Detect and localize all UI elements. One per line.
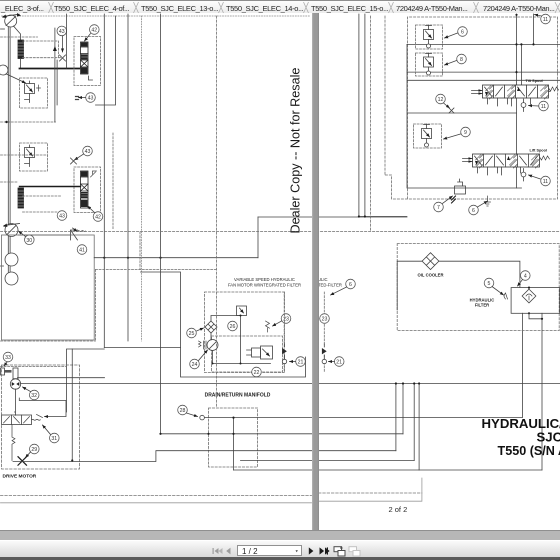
wire y348 left branch — [67, 349, 105, 412]
leader 43a — [62, 36, 64, 52]
dashed vertical x216 — [216, 16, 218, 408]
wire bus y417.6 — [204, 313, 522, 417]
pilot valve 7v — [452, 179, 466, 203]
leader 25 — [197, 328, 204, 331]
title text — [482, 416, 560, 458]
leader 28 — [187, 413, 198, 417]
frame bottom dashed — [1, 495, 312, 497]
balloon 30 — [25, 235, 35, 245]
svg-text:OIL COOLER: OIL COOLER — [418, 273, 444, 278]
relief valve RV1 — [20, 78, 48, 108]
bypass symbol — [504, 293, 508, 299]
frame bottom right page — [319, 492, 422, 494]
balloon edge cut — [0, 65, 8, 75]
LEFTPAGE — [0, 13, 407, 503]
wire bus y470 — [234, 469, 420, 471]
svg-text:DRIVE MOTOR: DRIVE MOTOR — [3, 474, 37, 480]
relief valve RV2 — [20, 143, 48, 171]
svg-text:23: 23 — [322, 317, 328, 323]
dashed pilot x139.5 — [1, 16, 217, 341]
filter column right dashed — [323, 292, 325, 344]
svg-text:DRAIN/RETURN MANIFOLD: DRAIN/RETURN MANIFOLD — [205, 393, 271, 399]
tab bar — [0, 0, 560, 13]
spring valve 23t — [266, 321, 270, 332]
wire oil cooler — [397, 261, 520, 310]
svg-text:26: 26 — [230, 324, 236, 330]
svg-text:FILTER: FILTER — [475, 303, 489, 308]
svg-text:21: 21 — [298, 360, 304, 366]
leader 6a — [445, 33, 458, 38]
wire y217 crosspage — [258, 216, 407, 218]
wire top corner — [19, 398, 66, 417]
leader 31 — [43, 425, 51, 435]
svg-text:12: 12 — [438, 97, 444, 103]
control valve dashed enclosure — [385, 17, 558, 199]
orifice X12 — [449, 108, 454, 113]
wire y80.3 — [408, 79, 560, 81]
flow control FC41 — [71, 228, 86, 240]
svg-text:6: 6 — [349, 282, 352, 288]
component box 26t — [237, 306, 247, 316]
svg-text:33: 33 — [5, 355, 11, 361]
dashed vertical x384.5 — [384, 16, 386, 175]
svg-text:42: 42 — [91, 28, 97, 34]
spool valve V1 — [74, 37, 101, 86]
balloon 43b — [86, 93, 96, 103]
balloon 32 — [29, 390, 39, 400]
port dots — [76, 97, 79, 100]
riser x516 — [516, 14, 518, 188]
svg-text:6: 6 — [472, 208, 475, 214]
solenoid coil A (hatched) — [18, 40, 24, 59]
balloon 42a — [90, 25, 100, 35]
junction dots — [103, 257, 161, 259]
node E2 — [1, 265, 4, 267]
prev page button (disabled) — [226, 548, 230, 555]
wire pump3 drop — [15, 389, 16, 415]
leader 11b — [529, 105, 539, 108]
RIGHTPAGE — [318, 14, 560, 514]
leader 24 — [199, 350, 208, 361]
continuation wires pair — [359, 14, 407, 217]
wire bus y460.5 — [241, 460, 415, 462]
plug X29 — [18, 457, 27, 466]
svg-text:42: 42 — [95, 215, 101, 221]
balloon 11c — [541, 176, 551, 186]
watermark: Dealer Copy -- Not for Resale — [289, 104, 304, 234]
oil cooler diamond — [422, 253, 439, 270]
hydraulic filter box — [511, 288, 560, 314]
manifold dashed box — [205, 292, 285, 373]
gray area below pages — [0, 530, 560, 540]
balloon 8 — [457, 54, 467, 64]
svg-text:9: 9 — [464, 130, 467, 136]
balloon 43a — [57, 26, 67, 36]
svg-text:24: 24 — [192, 362, 198, 368]
svg-text:ULIC: ULIC — [318, 277, 328, 282]
balloon 25 — [187, 328, 197, 338]
port circle — [200, 415, 205, 420]
wire heavy supply 2 — [20, 186, 81, 188]
svg-text:11: 11 — [543, 179, 548, 185]
previous view icon — [334, 547, 345, 557]
svg-text:32: 32 — [31, 393, 37, 399]
valve body box — [407, 44, 522, 188]
wire pump to flow control — [19, 234, 71, 236]
next view icon (disabled) — [349, 547, 360, 556]
svg-text:25: 25 — [189, 331, 195, 337]
leader 5 — [492, 287, 504, 296]
wire riser x257.5 — [257, 217, 259, 258]
leader 6b — [478, 201, 488, 207]
spool valve V2 — [74, 167, 101, 213]
riser x533 — [533, 14, 535, 44]
wire y44.4 — [407, 43, 560, 45]
dropdown arrow in pagebox — [296, 550, 298, 552]
PRV valve 6 — [416, 25, 443, 49]
drive valve block DV — [2, 415, 43, 425]
springs left of pump — [199, 341, 207, 349]
PRV valve 8 — [416, 53, 443, 76]
riser x521 — [520, 44, 522, 85]
svg-text:FAN MOTOR W/INTEGRATED FILTER: FAN MOTOR W/INTEGRATED FILTER — [228, 283, 301, 288]
wire manifold internal — [211, 316, 271, 364]
right page drop wires — [395, 384, 397, 451]
balloon 43d — [57, 211, 67, 221]
balloon 21R — [334, 357, 344, 367]
tilt spool valve — [472, 85, 559, 106]
motor M2 — [5, 272, 18, 285]
balloon 28 — [178, 405, 188, 415]
filter symbol col R — [322, 348, 327, 354]
drain symbol — [485, 196, 491, 206]
svg-text:21: 21 — [336, 360, 342, 366]
svg-text:VARIABLE SPEED HYDRAULIC: VARIABLE SPEED HYDRAULIC — [234, 277, 295, 282]
frame bottom solid — [1, 502, 312, 504]
dashed pilots mid-left — [1, 155, 61, 212]
page number box — [237, 545, 302, 556]
leader 9 — [444, 134, 461, 139]
leader 23L — [273, 321, 282, 326]
balloon 5 — [484, 278, 494, 288]
page gap strip — [312, 13, 319, 530]
svg-text:11: 11 — [541, 104, 546, 110]
frame top dotted — [2, 15, 310, 17]
leader 32 — [23, 387, 31, 392]
svg-text:23: 23 — [283, 317, 289, 323]
svg-text:11: 11 — [543, 17, 548, 23]
filter symbol col L — [282, 348, 287, 354]
pump housing box — [2, 235, 95, 340]
balloon 22 — [252, 367, 262, 377]
balloon 41 — [77, 245, 87, 255]
leader 11c — [529, 175, 541, 179]
svg-text:30: 30 — [26, 238, 32, 244]
check valve c11 — [521, 99, 526, 112]
leader 11a — [535, 15, 542, 17]
balloon 24 — [190, 359, 200, 369]
next page button — [309, 547, 314, 554]
svg-text:2 of 2: 2 of 2 — [389, 505, 408, 514]
lift spool valve — [463, 154, 550, 175]
svg-text:22: 22 — [254, 370, 260, 376]
svg-text:29: 29 — [31, 447, 37, 453]
svg-text:Tilt Spool: Tilt Spool — [526, 79, 543, 83]
dashed pilot y122 — [1, 121, 56, 123]
svg-text:6: 6 — [461, 30, 464, 36]
spring S29 — [12, 425, 15, 461]
balloon 31 — [50, 433, 60, 443]
leader edge balloon — [7, 74, 26, 83]
dashed pilot lines top-left — [1, 37, 63, 58]
svg-text:43: 43 — [59, 29, 65, 35]
wire y72.1 — [407, 71, 560, 73]
leader 4 — [518, 280, 523, 287]
svg-text:43: 43 — [85, 149, 91, 155]
balloon 26 — [228, 321, 238, 331]
balloon 42b — [93, 212, 103, 222]
riser x233 — [233, 418, 235, 470]
svg-text:8: 8 — [460, 57, 463, 63]
leader 43c — [75, 154, 84, 160]
balloon 6c — [346, 279, 356, 289]
balloon 6b — [469, 205, 479, 215]
leader 7 — [443, 196, 453, 204]
leader 21R — [329, 361, 335, 363]
balloon 6a — [458, 27, 468, 37]
filter drop wire — [529, 313, 542, 470]
gauge assembly — [1, 367, 105, 379]
leader 21L — [290, 361, 296, 363]
leader 33 — [4, 362, 7, 366]
balloon 11a — [541, 14, 551, 24]
PRV valve 9 — [414, 124, 442, 148]
svg-text:43: 43 — [88, 96, 94, 102]
balloon 9 — [461, 127, 471, 137]
leader 29 — [26, 452, 31, 458]
dashed vertical x369 — [370, 16, 372, 232]
leader 30 — [19, 231, 26, 237]
leader 43b — [79, 97, 86, 99]
svg-text:41: 41 — [79, 248, 85, 254]
long dashed pilot y231.5 — [1, 231, 560, 233]
balloon 23R — [320, 314, 330, 324]
balloon 29 — [30, 444, 40, 454]
manifold solid box — [141, 272, 306, 377]
leader 42a — [85, 34, 91, 42]
last page button — [320, 547, 330, 554]
svg-text:4: 4 — [524, 274, 527, 280]
hydraulic filter diamond — [522, 289, 536, 303]
svg-text:SJC: SJC — [537, 430, 560, 445]
balloon 21L — [296, 357, 306, 367]
balloon 12 — [436, 94, 446, 104]
svg-text:28: 28 — [180, 408, 186, 414]
check valve c11c — [521, 169, 526, 182]
solenoid valve 22v — [247, 346, 273, 359]
FAN MANIFOLD section — [141, 272, 306, 377]
first page button (disabled) — [213, 548, 223, 554]
balloon 4 — [521, 271, 531, 281]
wire branch x54 — [54, 28, 56, 122]
balloon 43c — [83, 146, 93, 156]
balloon 33 — [3, 352, 13, 362]
wire pump to coil — [14, 26, 21, 40]
orifice X1 — [60, 55, 66, 61]
solenoid coil B (hatched) — [18, 188, 24, 208]
verticals center — [103, 14, 105, 348]
DRAIN MANIFOLD section — [178, 393, 271, 468]
leader 42b — [88, 206, 95, 213]
wire bus y433.8 — [161, 433, 404, 435]
balloon 7 — [434, 202, 444, 212]
leader 8 — [445, 61, 457, 66]
wire bus y451 — [13, 451, 396, 462]
svg-text:T550 (S/N A: T550 (S/N A — [498, 444, 560, 458]
inner dashed box — [212, 336, 283, 372]
wire y113 — [408, 112, 517, 114]
pump P1 — [2, 13, 21, 27]
svg-text:5: 5 — [488, 281, 491, 287]
fan pump circle — [207, 340, 218, 351]
junction dots — [71, 417, 234, 462]
svg-text:Lift Spool: Lift Spool — [530, 149, 548, 153]
drive motor dashed box — [2, 365, 80, 469]
wire heavy supply — [20, 68, 81, 70]
pump P3 — [10, 379, 20, 389]
leader 6c — [331, 287, 347, 295]
filter diamond F1 — [205, 321, 217, 333]
orifice X2 — [71, 158, 77, 164]
svg-text:31: 31 — [51, 436, 57, 442]
wire coil to manifold — [20, 59, 22, 69]
filter column left dashed — [284, 292, 286, 344]
wire y257.7 — [94, 257, 258, 259]
toolbar — [0, 540, 560, 557]
leader 12 — [444, 103, 450, 108]
svg-text:TED-FILTER: TED-FILTER — [318, 283, 342, 288]
wire pump down pair — [7, 27, 9, 272]
pump P2 — [3, 224, 20, 237]
balloon 11b — [539, 101, 549, 111]
node E1 — [1, 28, 5, 30]
drain dashed box — [209, 408, 258, 467]
motor M1 — [5, 253, 18, 266]
balloon 23L — [281, 314, 291, 324]
svg-text:7: 7 — [437, 205, 440, 211]
riser x71.75 — [71, 349, 73, 461]
wire y347.5 — [104, 347, 180, 349]
svg-text:43: 43 — [59, 214, 65, 220]
oil cooler dashed box — [397, 244, 559, 331]
wire bus y383.5 — [21, 383, 560, 385]
